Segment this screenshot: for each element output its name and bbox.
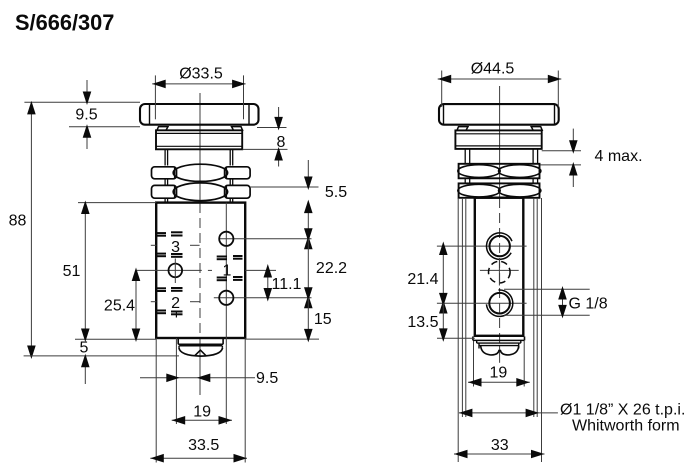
svg-text:88: 88 [9, 213, 27, 230]
dimension Ø44.5 [438, 61, 562, 108]
dimension 21.4 [407, 242, 447, 314]
left valve body [156, 203, 245, 338]
left body edge extension lines [156, 338, 245, 463]
right bottom port [486, 290, 512, 316]
svg-text:S/666/307: S/666/307 [15, 10, 114, 35]
dimension 5.5 [250, 160, 347, 239]
left port number 3 [171, 239, 180, 256]
dimension Ø33.5 top [152, 66, 245, 120]
left port hole upper-right [219, 232, 233, 246]
right top port horizontal line [437, 245, 527, 247]
left port 3 horizontal line [219, 238, 311, 240]
dimension 19 right view [468, 365, 530, 387]
right stems [465, 149, 537, 184]
right cap skirt pieces [457, 127, 542, 131]
left bottom cap [178, 339, 223, 356]
dimension 11.1 [264, 264, 302, 302]
right middle port hidden [489, 259, 511, 286]
dimension G 1/8 [504, 286, 608, 318]
dimension 15 [245, 298, 332, 343]
left port 2-1 horizontal line [137, 269, 276, 271]
right top port [486, 233, 511, 259]
title S/666/307 [15, 10, 114, 35]
port 1 thread marks [217, 256, 243, 280]
svg-text:2: 2 [171, 295, 180, 312]
left port 2 leader [151, 301, 200, 303]
left hole column lines [176, 203, 226, 424]
dimension 51 body height [63, 201, 157, 343]
dimension 33.5 bottom [150, 437, 247, 463]
svg-text:G 1/8: G 1/8 [569, 296, 608, 313]
right middle port horizontal line [480, 269, 519, 271]
port 3 thread marks [171, 232, 183, 256]
svg-text:9.5: 9.5 [256, 370, 278, 387]
left collar bezel [156, 130, 242, 149]
right valve body [475, 198, 524, 336]
svg-text:22.2: 22.2 [316, 260, 347, 277]
right hex nut upper [458, 164, 541, 179]
right body edge extension lines [474, 341, 525, 387]
dimension 4 max. [541, 129, 643, 187]
dimension 19 left view [172, 404, 232, 425]
svg-text:51: 51 [63, 263, 81, 280]
svg-text:Ø33.5: Ø33.5 [179, 66, 223, 83]
svg-text:33: 33 [491, 437, 509, 454]
dimension 13.5 [407, 303, 447, 342]
svg-text:9.5: 9.5 [75, 107, 97, 124]
dimension 9.5 bottom [140, 370, 278, 387]
left port number 1 [223, 262, 232, 279]
svg-text:19: 19 [490, 365, 508, 382]
left port number 2 [171, 295, 180, 312]
dimension 33 [454, 437, 545, 458]
left cap skirt pieces [157, 127, 243, 131]
svg-text:8: 8 [277, 134, 286, 151]
right view vertical centre line [499, 86, 501, 363]
left button cap [140, 104, 259, 125]
right bottom cap [473, 337, 525, 355]
right body bottom extension line [437, 337, 475, 339]
left edge thread marks [156, 233, 166, 313]
left port hole lower-right [219, 291, 233, 305]
left view vertical centre line [199, 93, 201, 395]
left port hole left [169, 259, 183, 284]
left hex nut upper [152, 164, 251, 181]
svg-text:19: 19 [193, 404, 211, 421]
left port 3 leader [151, 244, 200, 246]
svg-text:13.5: 13.5 [407, 314, 438, 331]
svg-text:11.1: 11.1 [272, 276, 302, 293]
svg-text:Whitworth form: Whitworth form [572, 418, 680, 435]
svg-text:5.5: 5.5 [325, 184, 347, 201]
svg-text:15: 15 [314, 311, 332, 328]
svg-text:Ø1 1/8” X 26 t.p.i.: Ø1 1/8” X 26 t.p.i. [560, 402, 685, 419]
right nut flat extension lines [458, 198, 541, 462]
right hex nut lower [458, 183, 541, 197]
dimension 22.2 [304, 228, 347, 308]
right button cap [439, 104, 559, 125]
dimension 25.4 [104, 268, 140, 343]
dimension 88 overall [9, 101, 179, 359]
svg-text:Ø44.5: Ø44.5 [471, 61, 515, 78]
svg-text:21.4: 21.4 [407, 271, 438, 288]
svg-text:4 max.: 4 max. [595, 148, 643, 165]
right thread extension lines [462, 198, 537, 417]
svg-text:33.5: 33.5 [188, 437, 219, 454]
left port bottom horizontal line [214, 297, 312, 299]
left hex nut lower [152, 183, 251, 201]
left stems [165, 149, 233, 202]
svg-text:5: 5 [80, 340, 89, 357]
right bottom port horizontal line [437, 302, 527, 304]
svg-text:25.4: 25.4 [104, 298, 135, 315]
dimension 8 collar [243, 107, 288, 167]
dimension 5 bottom step [80, 340, 90, 385]
dimension 9.5 cap height [24, 80, 140, 149]
right collar bezel [455, 130, 541, 149]
port 2 thread marks [171, 288, 183, 318]
dimension Ø1 1/8 X 26 t.p.i. [459, 402, 686, 435]
